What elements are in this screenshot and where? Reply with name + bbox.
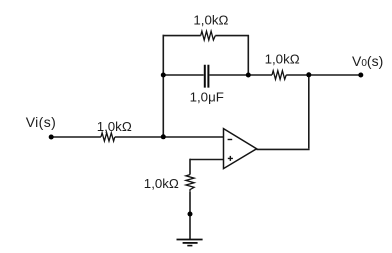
capacitor C1 1,0uF [205,65,209,88]
resistor R2 1,0k (feedback top) [201,31,216,40]
wire: capacitor branch horizontal [163,74,308,76]
wire: op-amp output to output node [257,148,310,150]
junction: output node [306,72,311,77]
terminal node Vi(s) [49,135,54,140]
junction node A (inverting input) [161,134,166,139]
junction: feedback left on capacitor branch [161,73,166,78]
op-amp U1 [224,129,257,169]
svg-text:V0(s): V0(s) [352,53,383,69]
wire: non-inverting input horizontal [190,159,224,161]
svg-text:1,0kΩ: 1,0kΩ [193,12,228,27]
svg-text:1,0μF: 1,0μF [190,90,224,105]
svg-text:Vi(s): Vi(s) [26,114,57,130]
junction: above ground [188,212,193,217]
op-amp minus pin mark [228,139,233,141]
ground [177,240,203,246]
resistor R4 1,0k (to ground, vertical) [186,175,194,192]
wire: output node to terminal [309,74,361,76]
resistor R3 1,0k (output) [272,71,286,80]
resistor R1 1,0k (input) [101,133,115,141]
wire: top feedback horizontal [163,35,250,37]
svg-text:1,0kΩ: 1,0kΩ [265,51,300,66]
junction: feedback right on capacitor branch [246,73,251,78]
op-amp plus pin mark [228,156,233,161]
wire: R4 to ground [189,192,191,239]
wire: input Vi to op-amp inverting input (node A) [51,136,224,138]
svg-text:1,0kΩ: 1,0kΩ [144,176,179,191]
wire: left feedback vertical [162,35,164,137]
wire: non-inverting vertical to R4 [189,159,191,175]
svg-text:1,0kΩ: 1,0kΩ [97,119,132,134]
wire: right feedback vertical [247,35,249,75]
terminal node V0(s) [358,73,363,78]
wire: output vertical down [308,75,310,149]
